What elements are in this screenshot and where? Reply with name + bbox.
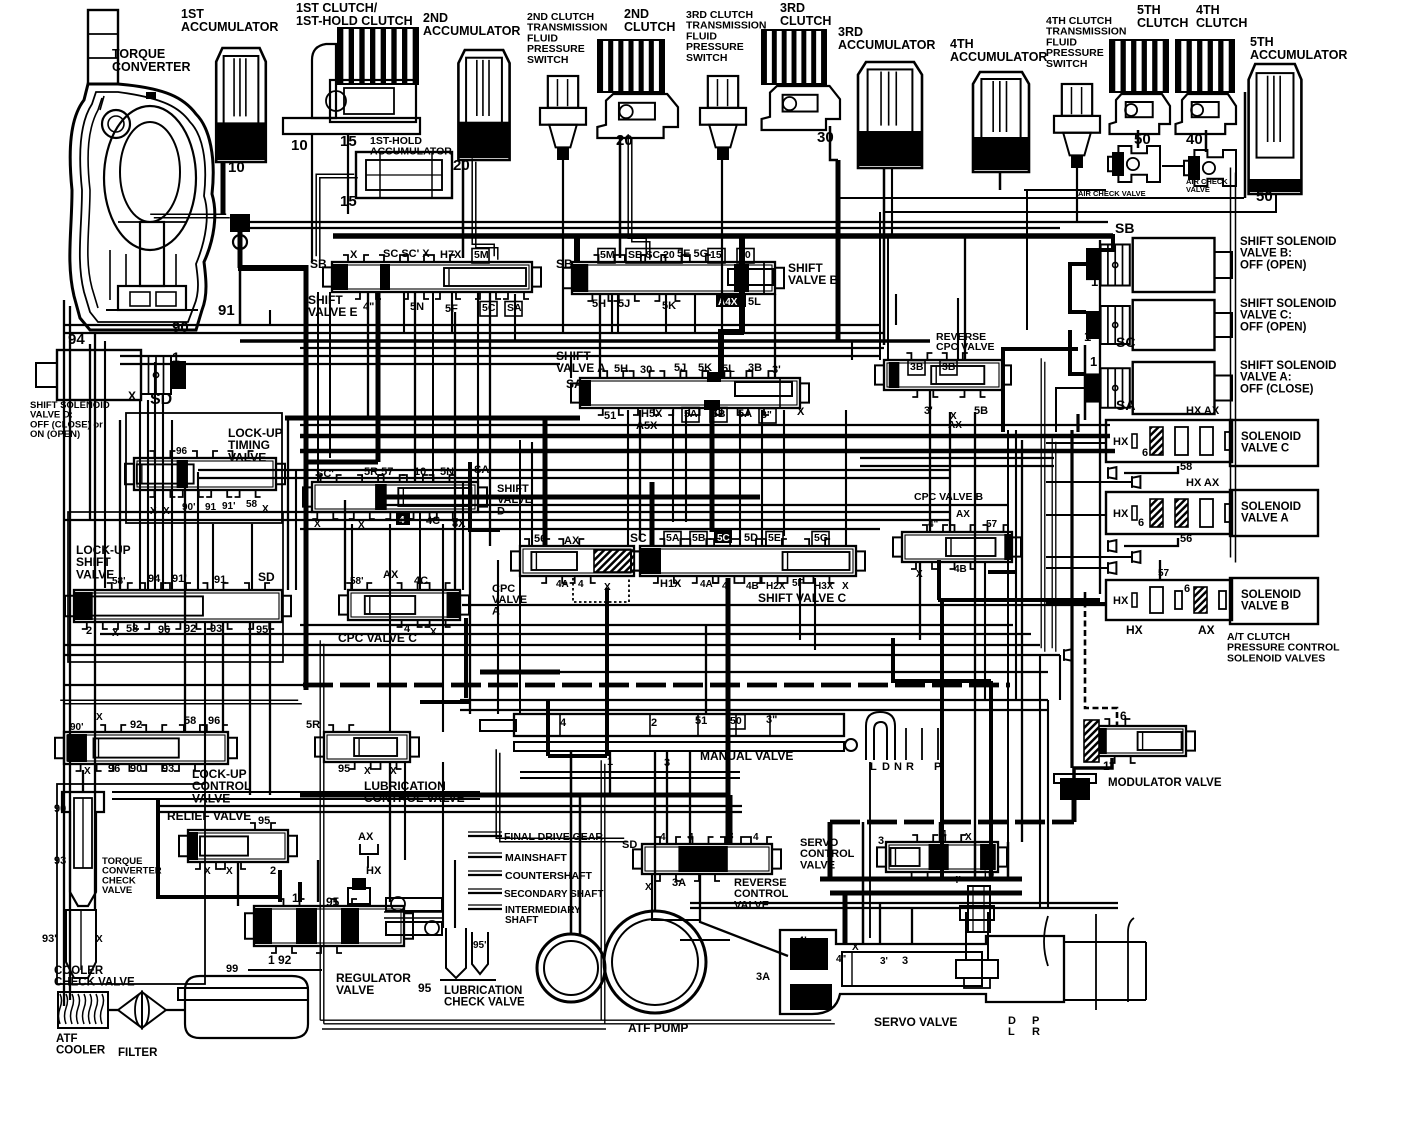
wire y425: [300, 424, 1110, 426]
svg-text:VALVE A: VALVE A: [1241, 513, 1289, 525]
wire y470: [198, 469, 950, 471]
svg-text:1ST-HOLD CLUTCH: 1ST-HOLD CLUTCH: [296, 14, 413, 28]
svg-text:5E 5G: 5E 5G: [677, 248, 708, 260]
lock-up timing valve frame: [126, 413, 282, 523]
svg-text:SERVO: SERVO: [800, 837, 839, 849]
svg-text:1: 1: [292, 891, 299, 905]
wire 50 air line: [1162, 165, 1184, 167]
svg-text:VALVE A:: VALVE A:: [1240, 372, 1292, 384]
svg-text:58': 58': [112, 576, 126, 587]
svg-text:SB: SB: [556, 257, 573, 271]
wire 94 wire: [89, 344, 91, 520]
wire bus y222: [240, 221, 1108, 223]
svg-text:D: D: [1008, 1015, 1016, 1027]
svg-text:SWITCH: SWITCH: [686, 52, 727, 64]
wire sol SC wire: [1003, 349, 1078, 432]
svg-text:VALVE: VALVE: [228, 450, 266, 464]
svg-text:91: 91: [214, 574, 226, 586]
solenoid valve B label box: [1230, 578, 1318, 624]
wire y645: [64, 644, 1040, 646]
svg-text:X: X: [842, 581, 849, 592]
shift valve D: [312, 482, 478, 512]
svg-text:58: 58: [246, 499, 258, 510]
wire x1245: [1244, 92, 1247, 198]
2nd clutch pressure switch: [548, 76, 578, 108]
solenoid valve C block: [1106, 420, 1232, 462]
svg-text:MANUAL VALVE: MANUAL VALVE: [700, 749, 793, 763]
svg-text:X: X: [226, 866, 233, 877]
svg-text:X: X: [965, 832, 972, 843]
svg-text:H1X: H1X: [660, 578, 682, 590]
svg-text:N: N: [894, 761, 902, 773]
wire box a feed: [1046, 514, 1106, 516]
wire x240b: [239, 248, 242, 325]
wire sol b left wire: [1070, 264, 1086, 312]
svg-text:10: 10: [291, 137, 308, 154]
3rd clutch pressure switch: [708, 76, 738, 108]
svg-text:VALVE A: VALVE A: [556, 361, 606, 375]
wire x1048: [1047, 700, 1049, 908]
wire x652 thick: [650, 482, 655, 546]
lock-up control valve: [64, 732, 228, 764]
svg-text:X: X: [852, 942, 859, 953]
svg-text:X: X: [96, 934, 103, 945]
svg-text:HX AX: HX AX: [1186, 477, 1220, 489]
wire y700: [460, 699, 1048, 701]
wire x939 thick: [937, 560, 941, 600]
svg-text:40: 40: [988, 157, 1005, 174]
wire x466 thick: [464, 618, 468, 698]
svg-text:SOLENOID VALVES: SOLENOID VALVES: [1227, 652, 1325, 664]
wire y530 stub: [470, 528, 500, 532]
svg-text:R: R: [1032, 1026, 1040, 1038]
svg-text:90': 90': [70, 722, 84, 733]
wire 1st hold acc pipe: [316, 174, 354, 256]
solenoid valve A block: [1106, 492, 1232, 534]
torque converter check valve 2: [66, 910, 96, 978]
svg-text:SB: SB: [1115, 220, 1134, 236]
svg-text:95: 95: [258, 815, 270, 827]
wire x368: [367, 292, 369, 418]
svg-text:ACCUMULATOR: ACCUMULATOR: [838, 38, 935, 52]
svg-text:MODULATOR VALVE: MODULATOR VALVE: [1108, 777, 1222, 789]
svg-text:91: 91: [218, 302, 235, 319]
wire reg thick3: [548, 754, 607, 758]
svg-text:HX: HX: [1113, 436, 1129, 448]
svg-text:5K: 5K: [662, 300, 676, 312]
wire rcpc y462: [860, 465, 1054, 467]
wire x600: [599, 294, 601, 378]
wire mv1 down: [609, 751, 611, 795]
wire x618b: [617, 294, 619, 332]
wire x666: [665, 294, 667, 332]
wire servo v4: [911, 908, 913, 944]
svg-text:AX: AX: [564, 535, 580, 547]
svg-text:SOLENOID: SOLENOID: [1241, 431, 1301, 443]
svg-text:SWITCH: SWITCH: [527, 54, 568, 66]
svg-text:1 92: 1 92: [268, 953, 292, 967]
svg-text:X: X: [797, 406, 805, 418]
wire x470: [469, 524, 471, 714]
wire x815: [814, 578, 816, 650]
wire x213: [212, 524, 214, 590]
svg-text:5N: 5N: [440, 466, 454, 478]
svg-text:3B: 3B: [748, 362, 762, 374]
svg-text:1: 1: [1084, 329, 1091, 344]
wire bus y341: [240, 339, 930, 342]
wire y891 thick: [830, 891, 1022, 896]
svg-text:2: 2: [651, 717, 657, 729]
cpc valve B: [902, 532, 1012, 562]
svg-text:30: 30: [640, 364, 652, 376]
wire reg feed thick: [158, 799, 280, 897]
wire servo thick v: [843, 893, 848, 944]
svg-text:X: X: [96, 712, 103, 723]
wire detent down: [869, 762, 871, 938]
svg-text:6: 6: [1138, 517, 1144, 529]
svg-text:91': 91': [222, 501, 236, 512]
wire x405 low: [404, 762, 406, 860]
wire pump frame left: [319, 640, 321, 1020]
wire 2a: [472, 158, 494, 256]
svg-text:H7X: H7X: [440, 249, 462, 261]
wire 58 line: [1124, 466, 1178, 473]
wire x628: [627, 410, 629, 546]
svg-text:3': 3': [924, 405, 933, 417]
svg-text:CONTROL: CONTROL: [800, 848, 855, 860]
ATF pump: [537, 934, 605, 1002]
wire SD pipe: [496, 749, 624, 838]
svg-text:95: 95: [326, 895, 340, 909]
wire x443 low: [442, 762, 444, 928]
svg-text:L: L: [1008, 1026, 1015, 1038]
wire 30 line: [838, 197, 1244, 199]
svg-text:SHIFT SOLENOID: SHIFT SOLENOID: [1240, 298, 1336, 310]
wire bus y333: [64, 332, 884, 334]
svg-text:OFF (OPEN): OFF (OPEN): [1240, 321, 1307, 333]
svg-text:5D: 5D: [744, 532, 758, 544]
svg-text:51: 51: [695, 715, 707, 727]
svg-text:5L: 5L: [748, 296, 761, 308]
svg-text:5F: 5F: [792, 578, 804, 589]
wire bus y236: [333, 233, 1113, 239]
wire x378 thick: [376, 292, 381, 462]
wire x1040: [1039, 655, 1041, 908]
svg-text:R: R: [906, 761, 914, 773]
svg-text:5H: 5H: [614, 363, 628, 375]
svg-text:CONTROL: CONTROL: [734, 888, 789, 900]
svg-text:X: X: [430, 627, 437, 638]
svg-text:5M: 5M: [600, 249, 615, 261]
svg-text:AX: AX: [1198, 623, 1215, 637]
wire x1100: [1099, 240, 1101, 594]
wire x686: [685, 410, 687, 522]
wire y877 thick: [820, 877, 1022, 882]
wire y822 elbow: [828, 822, 833, 879]
shift solenoid valve D: [171, 361, 186, 389]
wire 3A line: [700, 875, 788, 956]
svg-text:95: 95: [338, 763, 350, 775]
wire y572 stub: [988, 570, 1017, 574]
svg-text:MAINSHAFT: MAINSHAFT: [505, 852, 567, 864]
svg-text:5A: 5A: [666, 532, 680, 544]
svg-text:96: 96: [208, 715, 220, 727]
wire 1st acc down: [221, 162, 226, 214]
svg-text:CLUTCH: CLUTCH: [780, 14, 831, 28]
wire bus y364: [120, 363, 560, 365]
wire x532: [531, 442, 533, 546]
svg-text:99: 99: [226, 963, 238, 975]
wire 56 line: [1124, 538, 1178, 546]
wire x740: [739, 410, 741, 546]
wire y496 thick: [380, 495, 760, 500]
wire x846: [845, 410, 847, 546]
svg-text:96: 96: [176, 446, 188, 457]
wire 40 bus drop: [739, 236, 745, 332]
svg-text:SECONDARY SHAFT: SECONDARY SHAFT: [504, 889, 603, 900]
5th clutch: [1110, 40, 1168, 92]
oil pan strainer: [185, 976, 308, 1038]
svg-text:COOLER: COOLER: [54, 965, 104, 977]
wire reg top2: [298, 882, 302, 902]
wire x198: [197, 472, 199, 590]
wire y684 thick dashed: [303, 683, 1010, 688]
wire y806: [160, 805, 742, 807]
svg-text:SWITCH: SWITCH: [1046, 58, 1087, 70]
wire rev valve feeds: [689, 751, 691, 844]
wire x172: [171, 420, 173, 590]
wire 99 wire: [248, 969, 322, 971]
wire pump frame bot2: [322, 1028, 606, 1030]
wire x784: [783, 410, 785, 536]
wire x105: [104, 341, 106, 588]
svg-text:58: 58: [1180, 461, 1192, 473]
servo control valve: [886, 842, 998, 872]
svg-text:VALVE: VALVE: [102, 885, 132, 896]
wire y452: [306, 451, 420, 453]
wire cooler line: [108, 1009, 118, 1011]
5th accumulator: [1249, 64, 1302, 194]
svg-text:4B: 4B: [954, 564, 967, 575]
svg-text:4B: 4B: [746, 581, 759, 592]
wire x673: [672, 410, 674, 522]
filter: [118, 992, 142, 1028]
wire x991 thick: [989, 681, 993, 879]
svg-text:P: P: [1032, 1015, 1039, 1027]
wire bus TC y216: [150, 213, 226, 215]
wire x443: [442, 524, 444, 732]
wire 3a vert: [652, 875, 700, 920]
wire x420: [419, 512, 421, 590]
svg-text:AX: AX: [358, 831, 374, 843]
wire y908: [690, 907, 1118, 909]
wire x930: [929, 390, 931, 532]
svg-text:ACCUMULATOR: ACCUMULATOR: [370, 146, 452, 158]
svg-text:SHIFT SOLENOID: SHIFT SOLENOID: [1240, 360, 1336, 372]
wire x712 thick: [710, 400, 715, 532]
svg-text:15: 15: [710, 249, 722, 261]
wire x888: [887, 236, 889, 360]
wire reg top: [278, 870, 282, 902]
4th clutch pressure switch: [1062, 84, 1092, 116]
wire sol feed right: [1086, 234, 1113, 250]
wire 5th acc down: [884, 194, 1276, 212]
wire 2nd sw stem: [562, 160, 564, 332]
wire y436: [300, 434, 1110, 439]
wire 10 down: [238, 232, 243, 268]
svg-text:30: 30: [858, 147, 875, 164]
svg-text:95': 95': [473, 940, 487, 951]
wire x120: [119, 420, 121, 590]
wire x1008: [1007, 430, 1009, 842]
wire air check v: [1026, 190, 1028, 330]
wire 40 jog: [721, 332, 744, 377]
wire x1072 thick: [1070, 430, 1073, 768]
wire left edge v: [63, 300, 65, 1006]
wire left frame bottom: [60, 699, 298, 701]
wire servo v2: [862, 822, 865, 944]
svg-text:CONVERTER: CONVERTER: [112, 60, 190, 74]
wire x148: [147, 400, 149, 590]
wire pump up2: [579, 795, 582, 934]
solenoid valve A label box: [1230, 490, 1318, 536]
svg-text:SHIFT VALVE C: SHIFT VALVE C: [758, 591, 847, 605]
svg-text:5M: 5M: [474, 249, 489, 261]
svg-text:4C: 4C: [414, 575, 428, 587]
wire sol d wire1: [139, 400, 141, 590]
wire servo v3: [879, 903, 881, 944]
wire SB drop: [574, 236, 580, 262]
wire x455: [454, 312, 456, 590]
wire 57 line: [1159, 560, 1161, 580]
svg-text:REVERSE: REVERSE: [734, 877, 787, 889]
wire x958: [957, 298, 959, 360]
svg-text:4A: 4A: [700, 579, 713, 590]
svg-text:ATF: ATF: [56, 1033, 78, 1045]
servo valve: [780, 930, 1064, 1014]
blob SC shift valve C: [643, 548, 661, 574]
wire 15 line: [347, 134, 349, 214]
wire x942 thick: [940, 600, 944, 879]
wire x800: [799, 578, 801, 640]
svg-text:ACCUMULATOR: ACCUMULATOR: [181, 20, 278, 34]
wire y462 thick: [306, 460, 378, 465]
svg-text:5J: 5J: [618, 298, 630, 310]
shift solenoid valve C: [1086, 311, 1101, 339]
wire hx pipe2: [1051, 438, 1053, 648]
svg-text:50: 50: [1256, 188, 1273, 205]
3rd clutch: [762, 30, 826, 84]
wire x404: [403, 292, 405, 332]
svg-text:SD: SD: [258, 570, 275, 584]
wire mod blob riser: [1072, 800, 1077, 822]
svg-text:CHECK VALVE: CHECK VALVE: [54, 977, 135, 989]
wire bus y325: [64, 324, 880, 326]
wire x571: [570, 356, 572, 378]
svg-text:X: X: [262, 504, 269, 515]
solenoid valve C label box: [1230, 420, 1318, 466]
svg-text:1: 1: [1090, 354, 1097, 369]
wire relief feed: [237, 862, 239, 906]
svg-text:3: 3: [878, 835, 884, 847]
wire y792 thin: [112, 791, 480, 793]
svg-text:SC: SC: [1116, 334, 1135, 350]
svg-text:3: 3: [902, 955, 908, 967]
svg-text:HX: HX: [1126, 623, 1143, 637]
wire y799 thin: [112, 798, 480, 800]
wire 2nd clutch pipe: [619, 136, 622, 258]
wire y418 thick: [285, 416, 580, 421]
svg-text:3A: 3A: [672, 877, 686, 889]
wire bowtie wires: [1046, 481, 1132, 483]
wire 3rd acc down2: [891, 168, 893, 236]
svg-text:90: 90: [130, 763, 142, 775]
svg-text:L: L: [870, 761, 877, 773]
svg-text:VALVE B: VALVE B: [788, 273, 839, 287]
reverse cpc valve: [884, 360, 1002, 390]
wire left edge v2: [69, 306, 71, 1000]
wire y478: [198, 477, 950, 479]
svg-text:93': 93': [42, 933, 57, 945]
svg-text:4A: 4A: [556, 579, 569, 590]
wire x728 thick: [726, 578, 731, 844]
wire air check bus: [1024, 189, 1106, 191]
svg-text:3A: 3A: [756, 971, 770, 983]
torque converter check valve: [62, 792, 104, 906]
svg-text:2: 2: [86, 625, 92, 637]
svg-text:6: 6: [1120, 709, 1127, 723]
wire y672 thick: [480, 670, 560, 675]
svg-text:VALVE: VALVE: [734, 899, 769, 911]
wire x330: [329, 292, 331, 458]
wire x250 low: [249, 622, 251, 795]
svg-text:X: X: [350, 249, 358, 261]
cpc valve A: [520, 546, 634, 576]
wire 4th acc down: [999, 172, 1002, 190]
svg-text:CPC: CPC: [492, 583, 515, 595]
wire reg thick2: [605, 588, 609, 756]
wire bus y356: [120, 355, 880, 357]
wire x433: [432, 292, 434, 482]
wire y520: [64, 519, 950, 521]
wire x155: [154, 362, 156, 590]
wire rcpc y450: [955, 449, 1043, 451]
wire x296: [295, 470, 297, 590]
wire servo x1008b: [1007, 842, 1010, 879]
servo bolt: [968, 886, 990, 932]
wire x288: [287, 418, 289, 590]
svg-text:VALVE B: VALVE B: [1241, 601, 1289, 613]
4th accumulator: [973, 72, 1029, 172]
air check valve right: [1184, 150, 1236, 186]
wire x775: [774, 294, 776, 378]
lock-up shift valve: [74, 590, 282, 622]
svg-text:SHIFT SOLENOID: SHIFT SOLENOID: [1240, 236, 1336, 248]
wire 10 bus down: [304, 265, 309, 690]
svg-text:SOLENOID: SOLENOID: [1241, 589, 1301, 601]
wire x95 low: [94, 784, 96, 910]
wire y822 thick dashed: [830, 820, 1074, 825]
wire x896: [895, 294, 897, 325]
wire x252: [251, 524, 253, 590]
wire 1st clutch down: [311, 134, 313, 262]
wire x640: [639, 410, 641, 540]
wire x920: [919, 562, 921, 640]
wire x1016: [1015, 430, 1017, 700]
3rd accumulator: [858, 62, 922, 168]
4th clutch: [1176, 40, 1234, 92]
wire x270 low: [269, 622, 271, 795]
